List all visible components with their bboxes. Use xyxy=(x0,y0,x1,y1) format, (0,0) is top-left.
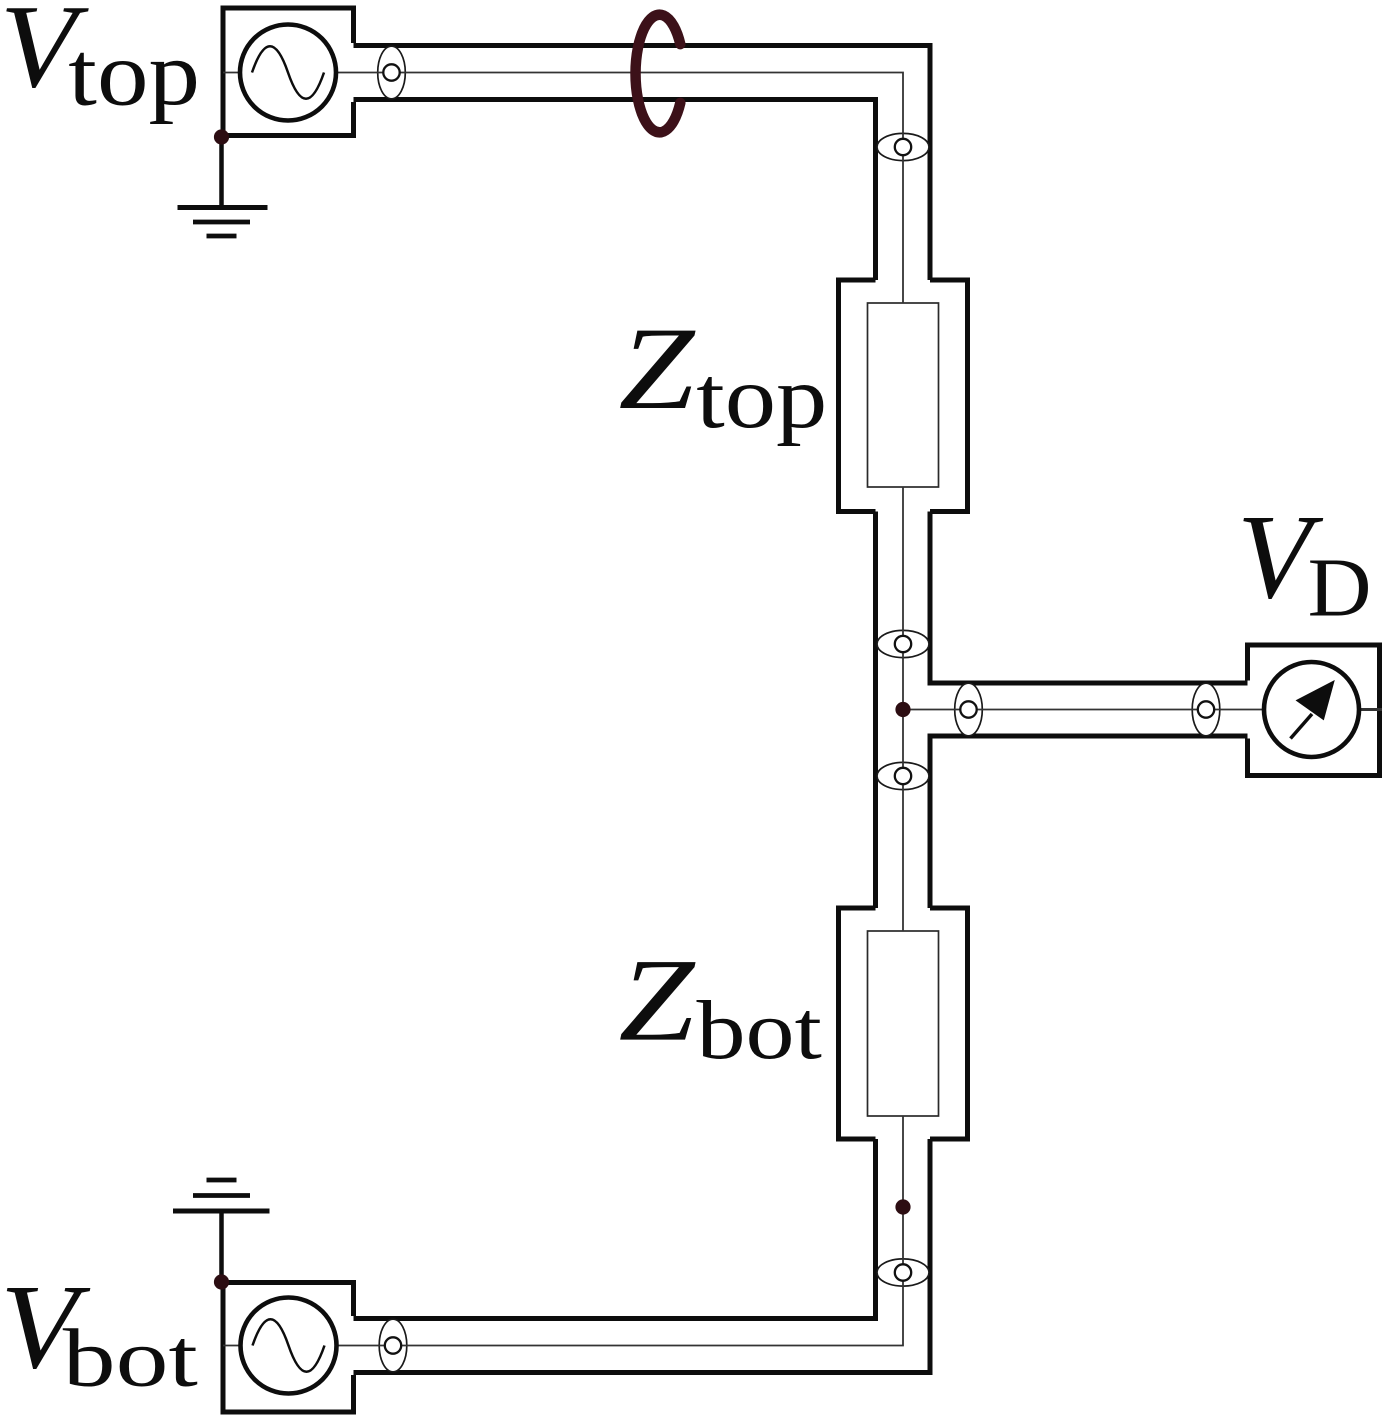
svg-text:Z: Z xyxy=(619,302,697,433)
svg-text:bot: bot xyxy=(63,1313,198,1404)
svg-text:top: top xyxy=(696,347,827,446)
svg-text:bot: bot xyxy=(697,983,822,1076)
svg-text:D: D xyxy=(1308,541,1372,634)
svg-text:Z: Z xyxy=(619,934,697,1066)
svg-text:top: top xyxy=(68,23,200,124)
